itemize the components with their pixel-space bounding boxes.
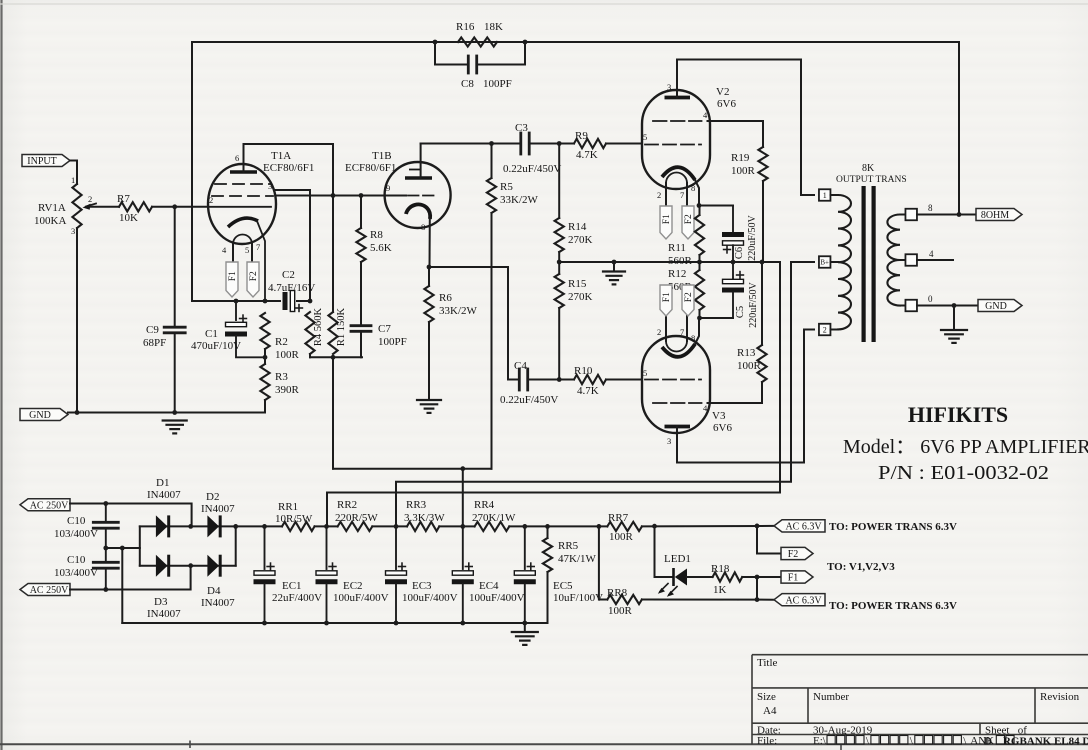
anode top tick of T1B (409, 169, 421, 171)
svg-text:RR3: RR3 (406, 499, 427, 511)
diode D4 (207, 555, 219, 577)
resistor R7 (119, 202, 152, 211)
svg-text:R9: R9 (575, 130, 588, 142)
ground symbol at output (941, 329, 967, 331)
capacitor EC4 (452, 579, 474, 584)
svg-text:270K: 270K (568, 234, 593, 246)
wire R12 top (699, 262, 701, 270)
wire B+ tap drop to EC3 node (396, 262, 791, 526)
capacitor EC1 (254, 579, 276, 584)
wire C8 parallel branch (435, 42, 467, 65)
svg-text:100uF/400V: 100uF/400V (469, 592, 525, 604)
node V3 cathode junction (697, 316, 702, 321)
net flag F2 at V3 (682, 285, 694, 316)
ground symbol mid rail (603, 270, 625, 272)
node ground stem on mid rail (612, 260, 617, 265)
capacitor C5 (722, 288, 744, 293)
node R14 top junction (557, 141, 562, 146)
svg-text:R19: R19 (731, 152, 750, 164)
svg-text:F1: F1 (228, 271, 238, 281)
cathode arc of T1A (228, 218, 258, 227)
svg-text:100PF: 100PF (483, 78, 512, 90)
wire C9 upper (174, 207, 176, 326)
svg-text:8: 8 (691, 183, 695, 193)
wire EC2 stem bottom (326, 584, 328, 623)
svg-text:F1: F1 (662, 292, 672, 302)
wire R8 to C7 (360, 262, 362, 324)
svg-text:2: 2 (657, 327, 661, 337)
svg-text:AC 6.3V: AC 6.3V (785, 595, 822, 606)
wire input to pot (70, 161, 77, 185)
node F2 drop junction (755, 524, 760, 529)
anode bar of T1B (405, 176, 432, 180)
port AC 250V flag bottom (20, 584, 70, 596)
svg-text:103/400V: 103/400V (54, 528, 98, 540)
LED1 emission arrow 1 (660, 584, 668, 592)
wire V2 heater pin 7 (686, 183, 688, 206)
node RR8 out junction (755, 597, 760, 602)
svg-text:Title: Title (757, 657, 778, 669)
diode D1 (156, 515, 168, 537)
svg-text:B+: B+ (820, 259, 829, 267)
wire RR8 to AC flag bottom (642, 599, 774, 601)
svg-text:390R: 390R (275, 384, 300, 396)
wire C5 stem top (732, 262, 734, 279)
wiper arrow of RV1A (86, 204, 96, 207)
svg-text:0.22uF/450V: 0.22uF/450V (500, 394, 558, 406)
wire V2 heater pin 2 (665, 183, 667, 206)
wire C10 mid tee (106, 547, 140, 549)
wire R6 top (428, 267, 430, 286)
wire R5 top (491, 144, 493, 179)
wire feedback top rail (192, 42, 959, 301)
wire R19 top (762, 121, 764, 147)
svg-text:100uF/400V: 100uF/400V (402, 592, 458, 604)
wire ground drop from bridge (121, 548, 123, 623)
wire V3 cathode tail (695, 318, 699, 344)
sheet centering tick bottom-mid (840, 744, 842, 750)
wire R5 bottom long drop (491, 213, 493, 469)
wire T1A heater pin right (251, 244, 253, 262)
resistor RR8 (607, 595, 642, 604)
svg-text:R13: R13 (737, 347, 756, 359)
svg-text:8: 8 (421, 222, 425, 232)
svg-text:R12: R12 (668, 268, 686, 280)
svg-text:F2: F2 (249, 271, 259, 281)
node R8 top junction (359, 193, 364, 198)
wire bridge row1 (140, 525, 236, 527)
svg-text:R18: R18 (711, 563, 730, 575)
wire R14 column top (558, 144, 560, 219)
wire R13 bottom to V3 screen (708, 382, 763, 403)
node RR5 top (545, 524, 550, 529)
node EC4 bottom (460, 621, 465, 626)
wire R13 top (761, 262, 763, 345)
node C10b bottom (103, 587, 108, 592)
svg-text:RR4: RR4 (474, 499, 495, 511)
svg-text:R1 150K: R1 150K (336, 307, 347, 346)
wire V2 screen to R19 (708, 120, 764, 122)
svg-text:8: 8 (928, 203, 933, 213)
svg-text:0: 0 (928, 294, 933, 304)
svg-text:270K: 270K (568, 291, 593, 303)
screen grid dashes of V3 (653, 402, 702, 404)
svg-text:RR5: RR5 (558, 540, 579, 552)
wire R14 to R15 (558, 252, 560, 274)
svg-text:A4: A4 (763, 705, 777, 717)
wire R3 bottom to ground rail (264, 400, 266, 413)
wire AC1 to bridge (70, 504, 192, 527)
node EC2 bottom (324, 621, 329, 626)
svg-text:TO: V1,V2,V3: TO: V1,V2,V3 (827, 561, 895, 573)
wire F1 node down to RR8 rail (756, 577, 758, 600)
wire node to R1 top (332, 196, 334, 313)
cathode arc of V2 (662, 167, 695, 180)
wire R4 bottom (309, 354, 311, 357)
wire R6 bottom (428, 322, 430, 399)
wire T1B anode stem (420, 144, 422, 179)
port INPUT flag (22, 155, 70, 167)
ground symbol PSU (512, 631, 538, 633)
svg-text:RR7: RR7 (608, 512, 629, 524)
node R2-R3 junction (263, 355, 268, 360)
svg-text:10uF/100V: 10uF/100V (553, 592, 603, 604)
node RR7 left junction (597, 524, 602, 529)
wire R12 bottom (699, 310, 701, 318)
svg-text:P/N : E01-0032-02: P/N : E01-0032-02 (878, 462, 1049, 484)
sheet border left edge (0, 0, 2, 750)
wire R15 bottom (558, 308, 560, 380)
wire R9 to V2 grid (606, 143, 642, 145)
svg-text:100R: 100R (609, 531, 634, 543)
capacitor C6 (722, 232, 744, 237)
svg-text:2: 2 (657, 190, 661, 200)
wire preamp supply drop to EC4 node (462, 469, 464, 527)
svg-text:IN4007: IN4007 (147, 608, 181, 620)
svg-text:AC 6.3V: AC 6.3V (785, 522, 822, 533)
resistor RR2 (338, 522, 373, 531)
wire bridge left vertical (139, 526, 141, 565)
svg-text:Number: Number (813, 691, 849, 703)
svg-text:103/400V: 103/400V (54, 567, 98, 579)
wire C10 column mid (105, 530, 107, 562)
svg-text:V3: V3 (712, 410, 726, 422)
svg-text:100KA: 100KA (34, 215, 66, 227)
svg-text:IN4007: IN4007 (201, 597, 235, 609)
wire tap1 stub (831, 194, 839, 196)
resistor R10 (574, 375, 606, 384)
resistor RR1 (282, 522, 315, 531)
svg-text:EC3: EC3 (412, 580, 432, 592)
svg-text:EC2: EC2 (343, 580, 363, 592)
svg-text:10K: 10K (119, 212, 138, 224)
wire bridge row2 (140, 565, 236, 567)
wire C3 to R9 (531, 143, 574, 145)
svg-text:IN4007: IN4007 (201, 503, 235, 515)
net flag F2 at V2 (682, 206, 694, 239)
net flag F1 output (781, 571, 813, 583)
wire bias rail down to supply (332, 357, 334, 468)
node bridge output (233, 524, 238, 529)
svg-text:4: 4 (929, 249, 934, 259)
resistor R4 (305, 312, 314, 354)
svg-text:R8: R8 (370, 229, 383, 241)
port 8OHM flag (976, 209, 1022, 221)
svg-text:9: 9 (386, 183, 390, 193)
svg-text:6: 6 (235, 153, 239, 163)
svg-text:47K/1W: 47K/1W (558, 553, 597, 565)
wire EC4 stem bottom (462, 584, 464, 623)
wire ground rail bottom left (68, 412, 265, 414)
port AC 250V flag top (20, 499, 70, 511)
svg-text:5.6K: 5.6K (370, 242, 392, 254)
svg-text:C10: C10 (67, 554, 86, 566)
wire R11 bottom (699, 255, 701, 262)
wire T1A heater pin left (232, 244, 234, 262)
node R14-R15 junction (557, 260, 562, 265)
wire cathode node rail (192, 300, 280, 302)
wire sec tap8 stub (900, 214, 906, 216)
svg-text:D3: D3 (154, 596, 168, 608)
svg-text:270K/1W: 270K/1W (472, 512, 516, 524)
node C10a top (103, 501, 108, 506)
svg-text:4.7uF/16V: 4.7uF/16V (268, 282, 315, 294)
node EC4 top (460, 524, 465, 529)
svg-text:C5: C5 (735, 306, 746, 318)
svg-text:220uF/50V: 220uF/50V (748, 281, 759, 327)
resistor RR3 (407, 522, 439, 531)
resistor R5 (487, 178, 496, 213)
control grid dashes of V3 (645, 379, 701, 381)
svg-text:C3: C3 (515, 122, 528, 134)
wire V3 cathode rail (700, 317, 734, 319)
wire sec 4 stub out (917, 259, 953, 261)
wire RR4 to RR7 rail (509, 525, 607, 527)
svg-text:R7: R7 (117, 193, 130, 205)
wire T1B anode rail (421, 143, 519, 145)
node feedback-R16 right junction (523, 40, 528, 45)
node bias rail to B+ drop (331, 355, 336, 360)
anode bar of T1A (230, 170, 257, 174)
port GND output flag (978, 300, 1022, 312)
grid dashes row2 of T1A (212, 195, 273, 197)
svg-text:EC1: EC1 (282, 580, 302, 592)
svg-text:5: 5 (643, 132, 647, 142)
wire T1B cathode stem (429, 219, 431, 267)
heater arc of V3 (666, 341, 687, 352)
svg-text:3.3K/3W: 3.3K/3W (404, 512, 445, 524)
wire EC3 stem bottom (395, 584, 397, 623)
resistor RR5 (543, 538, 552, 572)
svg-text:6V6: 6V6 (713, 422, 732, 434)
wire C5 stem bottom (732, 293, 734, 319)
LED1 emission arrow 2 (669, 587, 677, 595)
wire R4-R1-C7 bottom rail (310, 356, 362, 358)
svg-text:R5: R5 (500, 181, 513, 193)
svg-text:TO: POWER TRANS 6.3V: TO: POWER TRANS 6.3V (829, 521, 957, 533)
svg-text:100R: 100R (275, 349, 300, 361)
svg-text:F1: F1 (788, 573, 799, 584)
svg-text:Revision: Revision (1040, 691, 1080, 703)
node feedback-R16 left junction (433, 40, 438, 45)
node C9 bottom on ground rail (172, 410, 177, 415)
svg-text:V2: V2 (716, 86, 729, 98)
wire ground stem (613, 262, 615, 271)
terminal square tap 1 (819, 189, 831, 201)
wire PSU ground rail (122, 622, 547, 624)
wire R19 bottom to mid rail (762, 181, 764, 262)
svg-text:F1: F1 (662, 214, 672, 224)
terminal square tap B+ (819, 256, 831, 268)
resistor R13 (757, 345, 766, 382)
node sec 0 ground junction (952, 303, 957, 308)
svg-text:68PF: 68PF (143, 337, 166, 349)
wire C1 stem bottom (236, 336, 265, 357)
svg-text:7: 7 (680, 327, 684, 337)
svg-text:1: 1 (71, 175, 75, 185)
resistor R6 (424, 286, 433, 322)
node C1 top (234, 299, 239, 304)
wire mid rail drop to EC2 node (327, 262, 780, 526)
svg-text:560R: 560R (668, 255, 693, 267)
node AC1 into bridge (188, 524, 193, 529)
svg-text:Model： 6V6 PP AMPLIFIER: Model： 6V6 PP AMPLIFIER (843, 436, 1088, 458)
node R5-C3 junction (489, 141, 494, 146)
resistor R9 (574, 139, 606, 148)
capacitor EC3 (385, 579, 407, 584)
wire cathode node rail right part (297, 300, 310, 302)
resistor R15 (555, 274, 564, 308)
core bar right of output transformer (872, 186, 876, 342)
node anode-load junction (331, 193, 336, 198)
triode T1B envelope (385, 162, 451, 228)
svg-text:220uF/50V: 220uF/50V (747, 214, 758, 260)
node R2 top (263, 299, 268, 304)
svg-text:F2: F2 (788, 549, 799, 560)
resistor R19 (758, 147, 767, 181)
svg-text:GND: GND (29, 410, 51, 421)
svg-text:8OHM: 8OHM (981, 210, 1009, 221)
node C6-C5 junction (731, 260, 736, 265)
node EC1 top (262, 524, 267, 529)
wire RR5 top (547, 526, 549, 538)
diode D3 (156, 555, 168, 577)
wire preamp supply rail (333, 468, 492, 470)
control grid line of T1A (209, 206, 271, 208)
capacitor EC5 (514, 579, 536, 584)
svg-text:AC 250V: AC 250V (30, 500, 69, 511)
wire C4 to R10 (529, 379, 574, 381)
svg-text:33K/2W: 33K/2W (500, 194, 539, 206)
svg-text:7: 7 (256, 242, 260, 252)
svg-text:8: 8 (691, 333, 695, 343)
cathode arc of V3 (662, 344, 695, 357)
wire mid ground rail (559, 261, 780, 263)
svg-text:C9: C9 (146, 324, 159, 336)
svg-text:5: 5 (245, 245, 249, 255)
wire EC5 stem top (524, 526, 526, 569)
terminal square sec 8 (905, 209, 917, 221)
resistor R11 (695, 215, 704, 255)
svg-text:33K/2W: 33K/2W (439, 305, 478, 317)
wire C6 stem top (732, 206, 734, 233)
svg-text:2: 2 (209, 195, 213, 205)
node R11-R12 junction (697, 260, 702, 265)
node C9 top junction (172, 204, 177, 209)
capacitor C4 (518, 369, 521, 390)
svg-text:R2: R2 (275, 336, 288, 348)
terminal square tap 2 (819, 324, 831, 336)
node EC5 bottom (522, 621, 527, 626)
svg-text:R14: R14 (568, 221, 587, 233)
wire LED branch drop (655, 526, 673, 577)
svg-text:R11: R11 (668, 242, 686, 254)
svg-text:D4: D4 (207, 585, 221, 597)
svg-text:470uF/10V: 470uF/10V (191, 340, 241, 352)
svg-text:18K: 18K (484, 21, 503, 33)
svg-text:220R/5W: 220R/5W (335, 512, 378, 524)
wire RR3-RR4 link (439, 525, 474, 527)
wire R10 to V3 grid (606, 379, 642, 381)
svg-text:3: 3 (667, 82, 671, 92)
node EC3 bottom (394, 621, 399, 626)
svg-text:D1: D1 (156, 477, 169, 489)
svg-text:2: 2 (823, 325, 827, 334)
wire tapB stub (831, 261, 839, 263)
wire AC2 to bridge (70, 566, 191, 590)
node feedback takeoff (957, 212, 962, 217)
svg-text:8K: 8K (862, 163, 875, 174)
control grid dashes of V2 (645, 144, 701, 146)
wire tap2 stub (831, 329, 839, 331)
wire sec ground stem (953, 306, 955, 330)
secondary winding of output transformer (887, 215, 900, 306)
svg-text:4.7K: 4.7K (576, 149, 598, 161)
sheet border top edge (0, 3, 1088, 5)
net flag F2 output (781, 547, 813, 559)
wire T1A pin3 to screen node (276, 190, 311, 301)
svg-text:0.22uF/450V: 0.22uF/450V (503, 163, 561, 175)
svg-text:ECF80/6F1: ECF80/6F1 (263, 162, 314, 174)
LED LED1 (672, 568, 675, 586)
cathode arc of T1B (406, 204, 430, 219)
grid dashes of T1B (408, 195, 437, 197)
title block frame (752, 655, 1088, 745)
wire F2 branch (757, 526, 781, 554)
svg-text:2: 2 (88, 194, 92, 204)
capacitor C10 upper (93, 521, 118, 524)
wire T1A anode pin 6 stem (243, 144, 245, 172)
pentode V3 envelope (642, 336, 710, 433)
wire pot bottom to ground rail (76, 228, 78, 413)
ground symbol below R6 (417, 399, 441, 401)
wire C8 parallel branch right (478, 42, 525, 65)
svg-text:IN4007: IN4007 (147, 489, 181, 501)
svg-text:T1B: T1B (372, 150, 392, 162)
svg-text:C7: C7 (378, 323, 391, 335)
svg-text:1: 1 (823, 191, 827, 200)
terminal square sec 4 (905, 254, 917, 266)
wire main B+ rail (236, 525, 282, 527)
grid dashes row1 of T1A (215, 183, 271, 185)
wire T1A cathode tail (257, 221, 265, 301)
svg-text:R3: R3 (275, 371, 288, 383)
net flag F2 at T1A (247, 262, 259, 297)
capacitor C7 (351, 324, 371, 327)
resistor R3 (260, 364, 269, 400)
capacitor EC2 (316, 579, 338, 584)
capacitor C1 (225, 332, 247, 337)
